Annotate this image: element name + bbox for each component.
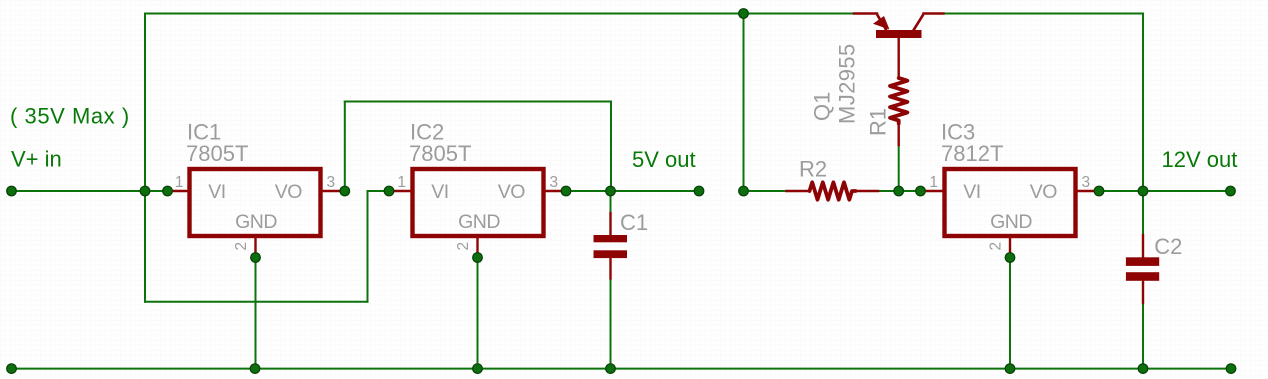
svg-text:3: 3 xyxy=(1082,174,1091,191)
svg-text:GND: GND xyxy=(235,211,277,233)
svg-text:2: 2 xyxy=(988,242,1005,251)
svg-text:GND: GND xyxy=(990,211,1032,233)
svg-text:5V out: 5V out xyxy=(632,147,696,172)
svg-text:3: 3 xyxy=(327,174,336,191)
svg-text:C1: C1 xyxy=(620,210,648,235)
svg-text:V+ in: V+ in xyxy=(11,147,62,172)
svg-text:1: 1 xyxy=(397,174,406,191)
svg-text:VO: VO xyxy=(498,181,526,203)
svg-text:12V out: 12V out xyxy=(1162,147,1238,172)
svg-text:1: 1 xyxy=(175,174,184,191)
svg-text:VI: VI xyxy=(208,181,225,203)
svg-text:VI: VI xyxy=(963,181,980,203)
svg-text:C2: C2 xyxy=(1154,234,1182,259)
svg-text:VO: VO xyxy=(1030,181,1058,203)
svg-text:R1: R1 xyxy=(866,108,891,136)
svg-text:2: 2 xyxy=(233,242,250,251)
svg-text:7805T: 7805T xyxy=(409,141,471,166)
svg-text:Q1: Q1 xyxy=(810,92,835,121)
svg-text:7812T: 7812T xyxy=(941,141,1003,166)
svg-text:VI: VI xyxy=(431,181,448,203)
svg-text:2: 2 xyxy=(455,242,472,251)
svg-text:1: 1 xyxy=(929,174,938,191)
svg-text:MJ2955: MJ2955 xyxy=(835,43,860,124)
svg-text:GND: GND xyxy=(458,211,500,233)
svg-text:( 35V Max ): ( 35V Max ) xyxy=(10,104,130,129)
svg-text:3: 3 xyxy=(550,174,559,191)
svg-text:R2: R2 xyxy=(799,156,827,181)
svg-text:VO: VO xyxy=(275,181,303,203)
svg-text:7805T: 7805T xyxy=(186,141,248,166)
